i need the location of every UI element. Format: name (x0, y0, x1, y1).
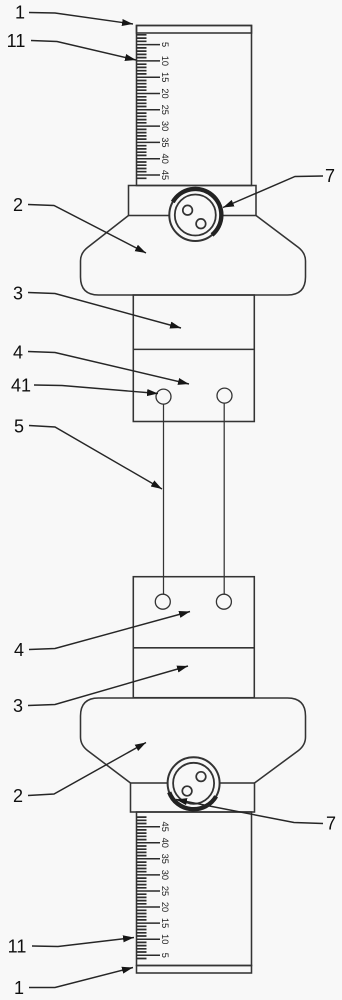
top connector block (3) (133, 295, 254, 422)
top ruler body (1) (137, 26, 252, 186)
top hole right (217, 388, 232, 403)
svg-text:30: 30 (160, 121, 170, 131)
svg-text:11: 11 (7, 31, 26, 51)
svg-text:3: 3 (13, 284, 23, 304)
label 5 leader arrow (29, 426, 162, 490)
top knob (7) outer circle (169, 189, 221, 241)
bottom knob (7) thick arc (169, 792, 216, 809)
label 2 (top) leader arrow (28, 205, 146, 254)
bottom hole right (216, 594, 231, 609)
bottom ruler cap strip (1) (137, 966, 252, 974)
label 3 (top) leader arrow (28, 293, 181, 329)
svg-text:11: 11 (8, 937, 27, 957)
svg-text:1: 1 (14, 978, 24, 998)
svg-text:40: 40 (160, 838, 170, 848)
top ruler cap strip (1) (137, 26, 252, 34)
label 11 (top) leader arrow (31, 41, 136, 61)
svg-text:20: 20 (160, 88, 170, 98)
top knob (7) thick arc (173, 189, 222, 235)
top hole 41 left (156, 389, 171, 404)
svg-text:1: 1 (15, 3, 25, 23)
top block divider line (3/4) (133, 348, 254, 350)
bottom block divider line (3/4) (133, 647, 254, 649)
top knob pin upper-left (183, 205, 193, 215)
svg-text:15: 15 (160, 918, 170, 928)
bottom knob pin lower-left (182, 786, 192, 796)
svg-text:10: 10 (160, 56, 170, 66)
svg-text:5: 5 (160, 953, 170, 958)
svg-text:30: 30 (160, 870, 170, 880)
label 1 (bottom) leader arrow (29, 968, 133, 988)
bottom connector block (4) (133, 577, 254, 698)
svg-text:5: 5 (14, 417, 24, 437)
svg-text:45: 45 (160, 822, 170, 832)
label 3 (bottom) leader arrow (28, 666, 188, 706)
svg-text:25: 25 (160, 105, 170, 115)
svg-text:45: 45 (160, 170, 170, 180)
svg-text:4: 4 (14, 640, 24, 660)
bottom hole left (155, 594, 170, 609)
svg-text:7: 7 (326, 814, 336, 834)
top ruler scale ticks (11) (137, 35, 170, 180)
label 41 leader arrow (34, 385, 158, 394)
wire 5 left (163, 404, 165, 594)
bottom ruler body (1) (137, 812, 252, 966)
svg-text:15: 15 (160, 72, 170, 82)
top knob pin lower-right (196, 219, 206, 229)
svg-text:5: 5 (160, 42, 170, 47)
bottom knob (7) outer circle (168, 757, 220, 809)
label 4 (top) leader arrow (28, 352, 189, 385)
svg-text:20: 20 (160, 902, 170, 912)
svg-text:35: 35 (160, 854, 170, 864)
svg-text:4: 4 (13, 343, 23, 363)
top bell body (2) (81, 216, 306, 296)
label 4 (bottom) leader arrow (29, 612, 190, 650)
top knob inner circle (175, 195, 216, 236)
svg-text:2: 2 (13, 786, 23, 806)
bottom knob inner circle (173, 763, 214, 804)
wire 5 right (223, 403, 225, 594)
svg-text:41: 41 (11, 376, 31, 396)
label 11 (bottom) leader arrow (32, 938, 134, 947)
label 7 (bottom) leader arrow (176, 800, 323, 824)
bottom ruler scale ticks (11) (137, 817, 170, 958)
bottom knob pin upper-right (196, 772, 206, 782)
bottom mounting band (131, 783, 255, 812)
svg-text:10: 10 (160, 934, 170, 944)
svg-text:35: 35 (160, 137, 170, 147)
bottom bell body (2) (81, 698, 306, 783)
label 2 (bottom) leader arrow (28, 743, 146, 796)
top mounting band (129, 186, 257, 216)
svg-text:2: 2 (13, 195, 23, 215)
svg-text:40: 40 (160, 154, 170, 164)
label 7 (top) leader arrow (223, 176, 323, 208)
svg-text:25: 25 (160, 886, 170, 896)
svg-text:3: 3 (13, 696, 23, 716)
label 1 (top) leader arrow (29, 13, 133, 25)
svg-text:7: 7 (325, 166, 335, 186)
